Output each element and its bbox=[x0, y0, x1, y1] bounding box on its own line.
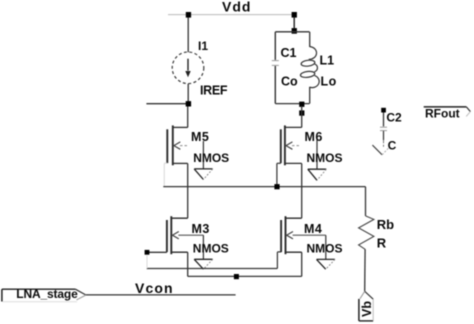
svg-text:C1: C1 bbox=[281, 46, 297, 60]
svg-text:Rb: Rb bbox=[377, 217, 394, 232]
svg-text:NMOS: NMOS bbox=[193, 242, 229, 256]
svg-text:Vdd: Vdd bbox=[222, 0, 251, 15]
svg-text:LNA_stage: LNA_stage bbox=[16, 287, 78, 301]
svg-text:Co: Co bbox=[281, 74, 298, 88]
svg-text:C2: C2 bbox=[386, 111, 402, 125]
svg-text:NMOS: NMOS bbox=[193, 151, 229, 165]
svg-text:IREF: IREF bbox=[200, 84, 228, 98]
svg-text:Lo: Lo bbox=[321, 74, 337, 88]
svg-text:M6: M6 bbox=[305, 130, 323, 144]
svg-text:NMOS: NMOS bbox=[307, 242, 343, 256]
svg-text:M5: M5 bbox=[191, 130, 209, 144]
svg-text:M3: M3 bbox=[192, 222, 210, 236]
svg-text:Vcon: Vcon bbox=[135, 280, 174, 296]
svg-text:RFout: RFout bbox=[425, 107, 460, 121]
svg-text:I1: I1 bbox=[198, 39, 208, 53]
svg-text:R: R bbox=[377, 235, 387, 250]
svg-text:C: C bbox=[388, 139, 397, 153]
svg-text:NMOS: NMOS bbox=[307, 151, 343, 165]
svg-text:L1: L1 bbox=[320, 53, 335, 67]
svg-text:Vb: Vb bbox=[360, 301, 374, 317]
svg-text:M4: M4 bbox=[304, 222, 322, 236]
